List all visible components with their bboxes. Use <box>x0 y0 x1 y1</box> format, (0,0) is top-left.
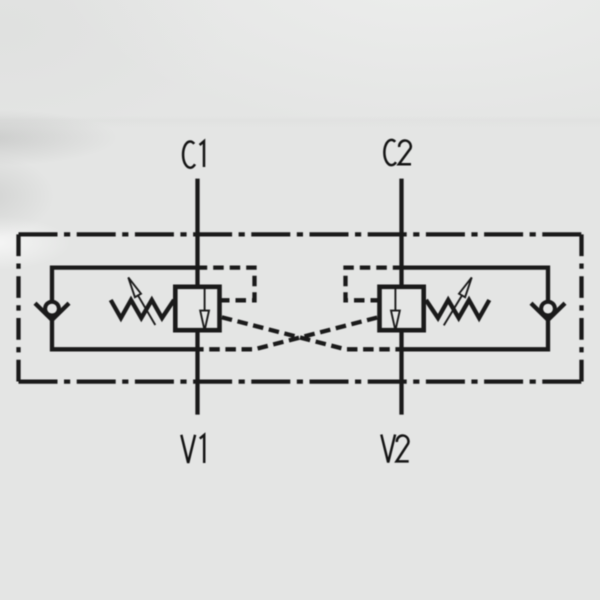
pilot line from right valve to V1 (dashed, crossing) <box>198 317 381 350</box>
enclosure boundary top edge (dash-dot) <box>19 232 582 236</box>
adjustment arrow shaft left <box>138 295 155 325</box>
port C2 line <box>399 179 403 288</box>
flow arrow stem right valve <box>394 288 396 311</box>
pilot line left internal (dashed) <box>198 268 255 301</box>
spring right valve <box>426 300 489 318</box>
check valve CV2 seat <box>531 303 565 320</box>
adjustment arrow shaft right <box>444 295 462 325</box>
valve body right (counterbalance element) <box>380 287 424 330</box>
label C2 <box>384 140 396 165</box>
label C1 <box>183 141 195 167</box>
enclosure boundary bottom edge (dash-dot) <box>19 379 582 383</box>
valve body left (counterbalance element) <box>175 287 219 330</box>
check valve CV2 ball <box>541 302 555 316</box>
spring left valve <box>111 300 174 318</box>
flow arrowhead left valve <box>200 311 209 331</box>
port C1 line <box>195 179 199 288</box>
check valve CV1 ball <box>45 302 59 316</box>
flow arrow stem left valve <box>204 288 206 311</box>
port V1 line <box>195 330 199 415</box>
enclosure boundary left edge (dash-dot) <box>16 234 20 381</box>
pilot line from left valve to V2 (dashed, crossing) <box>220 317 402 350</box>
enclosure boundary right edge (dash-dot) <box>579 234 583 381</box>
label V2 <box>381 435 395 463</box>
label V1 <box>181 435 195 463</box>
port V2 line <box>399 330 403 415</box>
adjustment arrowhead right <box>459 277 472 297</box>
pilot line right internal (dashed) <box>346 268 402 301</box>
wire right bypass loop <box>402 268 549 350</box>
check valve CV1 seat <box>35 303 69 320</box>
wire left bypass loop <box>52 268 198 350</box>
flow arrowhead right valve <box>391 311 400 331</box>
adjustment arrowhead left <box>128 277 141 297</box>
